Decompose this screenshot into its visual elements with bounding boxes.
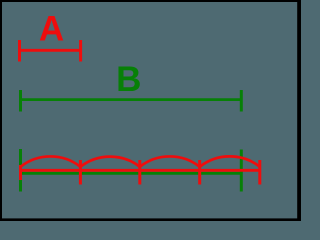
red tick t3 <box>198 160 201 185</box>
svg-text:A: A <box>39 10 64 49</box>
red tick t4 <box>258 160 261 185</box>
segment B left tick <box>19 90 22 112</box>
red tick t2 <box>138 160 141 185</box>
bottom red measuring line (4 copies of A) <box>20 169 262 172</box>
border frame <box>0 0 301 2</box>
segment A left tick <box>18 40 21 62</box>
arc 3 <box>140 156 200 166</box>
segment A right tick <box>79 40 82 62</box>
arc 2 <box>80 157 139 167</box>
bottom green right tick <box>240 150 243 192</box>
segment B right tick <box>240 90 243 112</box>
segment A line <box>20 49 81 52</box>
bottom green left tick <box>19 149 22 192</box>
bottom copy of B: green line <box>21 172 242 175</box>
red tick t0 (over green tick) <box>19 165 22 180</box>
arc 4 <box>200 156 260 166</box>
segment B line <box>21 98 242 101</box>
arc 1 <box>21 156 81 166</box>
svg-text:B: B <box>116 60 141 99</box>
red tick t1 <box>79 160 82 185</box>
